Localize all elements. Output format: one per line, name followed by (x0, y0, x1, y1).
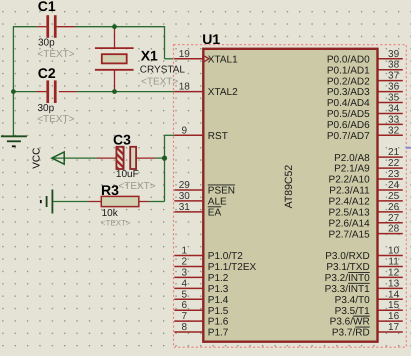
svg-text:PSEN: PSEN (208, 186, 235, 197)
svg-text:P2.2/A10: P2.2/A10 (329, 175, 371, 186)
svg-text:C1: C1 (38, 0, 56, 14)
svg-text:P3.5/T1: P3.5/T1 (335, 306, 370, 317)
svg-text:24: 24 (388, 180, 400, 191)
svg-text:29: 29 (179, 180, 191, 191)
svg-text:12: 12 (388, 267, 400, 278)
svg-text:P0.0/AD0: P0.0/AD0 (327, 54, 370, 65)
svg-text:<TEXT>: <TEXT> (141, 77, 178, 88)
svg-text:P2.1/A9: P2.1/A9 (334, 164, 370, 175)
svg-text:38: 38 (388, 60, 400, 71)
svg-text:<TEXT>: <TEXT> (37, 114, 74, 125)
svg-text:P0.2/AD2: P0.2/AD2 (327, 76, 370, 87)
svg-text:10: 10 (388, 246, 400, 257)
svg-text:30p: 30p (38, 37, 55, 48)
svg-text:P0.5/AD5: P0.5/AD5 (327, 109, 370, 120)
svg-text:8: 8 (182, 322, 188, 333)
svg-text:P0.6/AD6: P0.6/AD6 (327, 120, 370, 131)
svg-text:37: 37 (388, 71, 400, 82)
svg-text:EA: EA (208, 207, 222, 218)
svg-text:U1: U1 (202, 31, 220, 47)
svg-text:39: 39 (388, 49, 400, 60)
svg-text:P1.1/T2EX: P1.1/T2EX (208, 262, 257, 273)
svg-text:<TEXT>: <TEXT> (118, 181, 155, 192)
svg-text:<TEXT>: <TEXT> (101, 218, 131, 227)
svg-text:P2.0/A8: P2.0/A8 (334, 153, 370, 164)
svg-text:11: 11 (388, 256, 399, 267)
svg-text:P3.2/INT0: P3.2/INT0 (325, 273, 370, 284)
svg-text:33: 33 (388, 114, 400, 125)
svg-text:36: 36 (388, 82, 400, 93)
svg-text:X1: X1 (141, 47, 158, 63)
svg-text:22: 22 (388, 158, 400, 169)
svg-text:5: 5 (182, 289, 188, 300)
svg-text:2: 2 (182, 256, 188, 267)
svg-text:15: 15 (388, 300, 400, 311)
svg-text:P1.5: P1.5 (208, 306, 229, 317)
svg-text:P2.3/A11: P2.3/A11 (329, 186, 370, 197)
svg-text:P2.4/A12: P2.4/A12 (329, 196, 371, 207)
svg-text:P2.5/A13: P2.5/A13 (329, 207, 371, 218)
svg-text:ALE: ALE (208, 196, 227, 207)
svg-text:P2.7/A15: P2.7/A15 (329, 229, 371, 240)
svg-text:R3: R3 (101, 182, 119, 198)
svg-text:31: 31 (179, 202, 191, 213)
svg-text:19: 19 (179, 49, 191, 60)
svg-text:CRYSTAL: CRYSTAL (140, 64, 186, 75)
svg-text:<TEXT>: <TEXT> (37, 49, 74, 60)
svg-text:P1.3: P1.3 (208, 284, 229, 295)
svg-text:7: 7 (182, 311, 188, 322)
svg-text:XTAL1: XTAL1 (208, 54, 238, 65)
svg-text:10uF: 10uF (116, 169, 139, 180)
svg-text:30p: 30p (38, 103, 55, 114)
svg-text:28: 28 (388, 224, 400, 235)
svg-text:17: 17 (388, 322, 400, 333)
svg-text:21: 21 (388, 147, 400, 158)
svg-text:6: 6 (182, 300, 188, 311)
svg-text:P3.7/RD: P3.7/RD (332, 328, 370, 339)
svg-text:9: 9 (182, 125, 188, 136)
svg-text:P0.1/AD1: P0.1/AD1 (327, 65, 370, 76)
svg-text:P0.3/AD3: P0.3/AD3 (327, 87, 370, 98)
svg-text:30: 30 (179, 191, 191, 202)
svg-text:32: 32 (388, 125, 400, 136)
svg-text:P3.4/T0: P3.4/T0 (335, 295, 370, 306)
svg-text:4: 4 (182, 278, 188, 289)
svg-text:23: 23 (388, 169, 400, 180)
svg-text:16: 16 (388, 311, 400, 322)
svg-text:1: 1 (182, 246, 188, 257)
svg-text:P0.7/AD7: P0.7/AD7 (327, 131, 370, 142)
svg-text:VCC: VCC (31, 148, 42, 169)
svg-text:P3.6/WR: P3.6/WR (330, 317, 370, 328)
svg-text:P1.7: P1.7 (208, 328, 229, 339)
svg-text:35: 35 (388, 93, 400, 104)
svg-text:P3.3/INT1: P3.3/INT1 (325, 284, 370, 295)
svg-text:27: 27 (388, 213, 400, 224)
svg-text:P1.2: P1.2 (208, 273, 229, 284)
svg-text:P1.0/T2: P1.0/T2 (208, 251, 243, 262)
svg-text:34: 34 (388, 103, 400, 114)
svg-text:26: 26 (388, 202, 400, 213)
svg-text:25: 25 (388, 191, 400, 202)
svg-text:C2: C2 (38, 65, 56, 81)
svg-text:RST: RST (208, 131, 228, 142)
svg-text:XTAL2: XTAL2 (208, 87, 238, 98)
svg-text:C3: C3 (113, 131, 131, 147)
svg-text:10k: 10k (102, 208, 119, 219)
svg-text:18: 18 (179, 82, 191, 93)
svg-text:P0.4/AD4: P0.4/AD4 (327, 98, 370, 109)
svg-text:AT89C52: AT89C52 (283, 165, 295, 209)
svg-text:P2.6/A14: P2.6/A14 (329, 218, 371, 229)
svg-text:P3.1/TXD: P3.1/TXD (326, 262, 369, 273)
svg-text:P1.4: P1.4 (208, 295, 229, 306)
svg-text:P1.6: P1.6 (208, 317, 229, 328)
svg-text:13: 13 (388, 278, 400, 289)
svg-text:14: 14 (388, 289, 400, 300)
svg-text:3: 3 (182, 267, 188, 278)
svg-text:P3.0/RXD: P3.0/RXD (325, 251, 369, 262)
